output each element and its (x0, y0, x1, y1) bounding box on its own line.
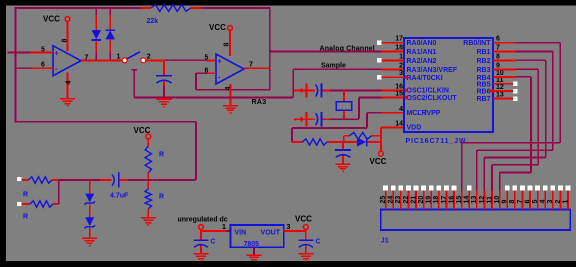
svg-text:R: R (23, 192, 28, 199)
wire: OSC2 net to PIC pin15 (329, 98, 404, 120)
wire: RB4 to J1 pin10 (493, 77, 531, 191)
wire: Analog Channel net (270, 45, 404, 52)
svg-text:RB0/INT: RB0/INT (463, 40, 491, 47)
svg-text:15: 15 (456, 196, 463, 204)
pin 19 stub J1 (426, 186, 434, 210)
svg-text:VCC: VCC (295, 214, 312, 223)
svg-text:17: 17 (441, 196, 448, 204)
svg-text:R: R (159, 194, 164, 201)
svg-text:14: 14 (395, 120, 403, 127)
svg-text:19: 19 (426, 196, 433, 204)
resistor R (MCLR pull-up) (292, 139, 357, 145)
capacitor C (input filter) (194, 231, 216, 253)
wire: top border horizontal to 22k (15, 7, 141, 9)
svg-text:23: 23 (395, 196, 402, 204)
svg-text:OSC2/CLKOUT: OSC2/CLKOUT (407, 95, 458, 102)
pin 12 stub J1 (479, 191, 486, 210)
pin 14 stub J1 (464, 186, 472, 210)
svg-text:24: 24 (388, 196, 395, 204)
zener diode Z2 (84, 205, 95, 239)
IC U3 PIC16C711 body (404, 38, 493, 132)
svg-text:VIN: VIN (235, 230, 247, 237)
op-amp U1 (53, 46, 81, 76)
wire: RB2 to J1 pin12 (484, 60, 545, 191)
wire: VDD pin14 to VCC (381, 127, 404, 151)
svg-text:3: 3 (547, 200, 554, 204)
power VCC symbol op-amp U2 (209, 23, 232, 56)
pin 3 stub RA4 (n.c.) (377, 70, 404, 79)
pin 2 label RA3 (399, 62, 403, 69)
wire: switch to hold cap junction (146, 59, 216, 61)
svg-text:VCC: VCC (43, 15, 60, 24)
pin 4 stub J1 (540, 186, 548, 210)
wire: 7805 ground stub (253, 247, 255, 254)
wire: unregulated dc to VIN (201, 229, 231, 231)
wire: U1 pin6 input (15, 67, 53, 69)
svg-text:+: + (218, 59, 222, 66)
svg-text:5: 5 (532, 200, 539, 204)
svg-text:16: 16 (448, 196, 455, 204)
capacitor C3 (OSC1) (294, 84, 329, 98)
pin 8 stub J1 (509, 186, 517, 210)
resistor R (lower divider) (145, 189, 164, 218)
pin 6 label U2 (205, 68, 209, 75)
svg-text:20: 20 (418, 196, 425, 204)
svg-text:6: 6 (496, 36, 500, 43)
svg-text:unregulated dc: unregulated dc (178, 216, 228, 223)
svg-text:13: 13 (496, 92, 504, 99)
svg-text:RB3: RB3 (476, 67, 490, 74)
ground below zeners (82, 238, 97, 247)
svg-text:4: 4 (540, 200, 547, 204)
svg-text:OSC1/CLKIN: OSC1/CLKIN (407, 88, 449, 95)
pin 4 lead U1 + ground (66, 73, 73, 99)
diode D1 (anti-parallel pair, left) (92, 8, 101, 60)
svg-text:12: 12 (496, 84, 504, 91)
wire: RB1 to J1 pin13 (477, 52, 553, 192)
svg-text:VCC: VCC (209, 23, 226, 32)
svg-text:9: 9 (496, 62, 500, 69)
wire: lower-left loop box top (15, 122, 196, 180)
svg-text:RB6: RB6 (476, 88, 490, 95)
label PIC16C711_JW (406, 138, 467, 145)
wire: MCLR net from PIC pin4 (292, 113, 404, 142)
pin 5 label U2 (205, 55, 209, 62)
svg-text:8: 8 (496, 53, 500, 60)
svg-text:25: 25 (380, 196, 387, 204)
svg-text:VDD: VDD (407, 125, 422, 132)
pin 24 stub J1 (388, 186, 396, 210)
ground below input cap (194, 253, 209, 261)
pin 8 label RB2 (496, 53, 500, 60)
svg-text:2: 2 (399, 62, 403, 69)
resistor R (parallel with D3) (344, 132, 381, 142)
svg-text:RB5: RB5 (476, 81, 490, 88)
pin 22 stub J1 (403, 186, 411, 210)
wire: joining the two input resistors (58, 180, 60, 204)
pin 25 stub J1 (380, 186, 388, 210)
wire: RB3 to J1 pin11 (492, 69, 538, 191)
switch S1 terminal 1 (117, 54, 128, 63)
crystal Y1 (336, 91, 352, 120)
ground below output cap (298, 253, 313, 261)
zener diode Z1 (84, 180, 95, 205)
pin 3 stub J1 (547, 186, 555, 210)
wire: left border vertical net (14, 8, 16, 122)
svg-text:2: 2 (147, 54, 151, 61)
pin 16 label OSC1 (395, 84, 403, 91)
svg-text:3: 3 (287, 224, 291, 231)
pin 6 label U1 (41, 62, 45, 69)
wire: RA3 net (132, 70, 294, 106)
pin 18 stub J1 (433, 186, 441, 210)
pin 6 stub J1 (524, 186, 532, 210)
svg-text:RA3: RA3 (252, 99, 267, 106)
capacitor C4 (OSC2) (294, 112, 329, 126)
svg-text:VOUT: VOUT (261, 230, 281, 237)
ground below divider (141, 217, 156, 226)
svg-text:2: 2 (555, 200, 562, 204)
svg-text:18: 18 (395, 45, 403, 52)
svg-text:10: 10 (494, 196, 501, 204)
node: input resistor R (upper) (17, 177, 59, 199)
wire: main lower-left horizontal (59, 179, 196, 181)
resistor R (upper divider) (145, 146, 164, 189)
power VCC symbol op-amp U1 (43, 15, 70, 52)
svg-text:VCC: VCC (370, 157, 387, 166)
resistor 22k (141, 5, 201, 25)
clock input markers on U3 (405, 75, 409, 100)
capacitor C hold (at switch) (156, 60, 172, 99)
pin 17 stub J1 (441, 186, 449, 210)
svg-text:16: 16 (395, 84, 403, 91)
svg-text:11: 11 (486, 196, 493, 204)
svg-text:RB1: RB1 (476, 49, 490, 56)
regulator U4 7805 (231, 225, 284, 248)
svg-text:22: 22 (403, 196, 410, 204)
pin 4 lead U2 + label (225, 84, 232, 105)
pin 10 label RB4 (496, 70, 504, 77)
wire: OSC1 net to PIC pin16 (329, 90, 404, 92)
svg-text:1: 1 (222, 224, 226, 231)
pin 12 stub RB6 (n.c.) (488, 84, 517, 93)
svg-text:RB7: RB7 (476, 96, 490, 103)
switch S1 terminal 2 (141, 54, 151, 63)
svg-text:J1: J1 (381, 238, 389, 245)
svg-text:13: 13 (471, 196, 478, 204)
svg-text:8: 8 (509, 200, 516, 204)
svg-text:C: C (316, 239, 321, 246)
svg-text:7: 7 (496, 45, 500, 52)
connector J1 body (381, 210, 571, 245)
pin 23 stub J1 (395, 186, 403, 210)
svg-text:R: R (23, 214, 28, 221)
svg-text:RA0/AN0: RA0/AN0 (407, 40, 437, 47)
pin 13 stub J1 (471, 191, 478, 210)
label: unregulated dc input (178, 216, 228, 231)
svg-text:RA3/AN3/VREF: RA3/AN3/VREF (407, 67, 458, 74)
wire: Sample net (293, 62, 404, 97)
diode D2 (anti-parallel pair, right) (106, 8, 115, 60)
svg-text:/VPP: /VPP (425, 110, 441, 117)
switch S1 lever (127, 52, 140, 59)
svg-text:C: C (211, 239, 216, 246)
pin 10 stub J1 (494, 191, 501, 210)
pin 11 stub RB5 (n.c.) (493, 77, 518, 86)
svg-text:4.7uF: 4.7uF (110, 192, 129, 199)
wire: U1 pin5 input (8, 52, 53, 54)
capacitor C5 (MCLR) (335, 142, 351, 164)
svg-text:8: 8 (224, 43, 231, 47)
svg-text:4: 4 (225, 87, 232, 91)
pin 2 stub J1 (555, 186, 563, 210)
pin 8 label U2 (rotated) (224, 43, 231, 47)
svg-text:5: 5 (205, 55, 209, 62)
pin 20 stub J1 (418, 186, 426, 210)
svg-text:14: 14 (464, 196, 471, 204)
ground below C5 (336, 163, 351, 172)
wire: VOUT to VCC (284, 224, 306, 231)
svg-text:1: 1 (117, 54, 121, 61)
ground below hold cap (157, 99, 172, 108)
svg-text:17: 17 (395, 36, 403, 43)
pin 13 stub RB7 (n.c.) (493, 92, 518, 101)
svg-text:7805: 7805 (244, 241, 260, 248)
power VCC divider symbol (134, 126, 151, 146)
pin 17 stub RA0 (n.c.) (377, 36, 404, 45)
power VCC symbol (MCLR/VDD) (370, 151, 387, 166)
pin 9 stub J1 (502, 186, 510, 210)
svg-text:4: 4 (399, 106, 403, 113)
pin 15 label OSC2 (395, 91, 403, 98)
svg-text:8: 8 (62, 39, 69, 43)
pin 11 stub J1 (486, 191, 493, 210)
svg-text:Analog Channel: Analog Channel (320, 45, 375, 52)
pin 1 stub J1 (562, 186, 570, 210)
power VCC symbol (7805 output) (295, 214, 312, 229)
svg-text:1: 1 (562, 200, 569, 204)
svg-text:18: 18 (433, 196, 440, 204)
pin 7 label U1 (85, 55, 89, 62)
pin 18 label RA1 (395, 45, 403, 52)
svg-text:9: 9 (502, 200, 509, 204)
pin 14 label VDD (395, 120, 403, 127)
diode D3 (MCLR) (357, 137, 381, 146)
node: input resistor R (lower) (17, 201, 59, 221)
op-amp U2 (216, 54, 244, 84)
pin 4 label MCLR (399, 106, 403, 113)
svg-text:RA2/AN2: RA2/AN2 (407, 58, 437, 65)
ground U1 (60, 98, 75, 107)
pin 9 label RB3 (496, 62, 500, 69)
wire: U2 pin6 feedback (196, 73, 270, 90)
pin 5 stub J1 (532, 186, 540, 210)
pin 8 label op-amp U1 (rotated) (62, 39, 69, 43)
wire: RB0 to J1 pin15 (462, 43, 561, 191)
svg-text:RA1/AN1: RA1/AN1 (407, 49, 437, 56)
pin 7 stub J1 (517, 186, 525, 210)
pin 1 stub RA2 (n.c.) (377, 53, 404, 62)
svg-text:Sample: Sample (321, 62, 346, 69)
capacitor C (output filter) (298, 231, 320, 253)
pin 7 label U2 (249, 62, 253, 69)
wire: U2 output (244, 67, 270, 69)
wire: feedback vertical (22k net to output) (269, 8, 271, 90)
capacitor 4.7uF (110, 172, 129, 199)
ground below 7805 (247, 254, 262, 260)
svg-text:1: 1 (399, 53, 403, 60)
svg-text:22k: 22k (147, 18, 159, 25)
wire: U1 output to switch (81, 59, 122, 61)
svg-text:+: + (55, 51, 59, 58)
svg-text:6: 6 (524, 200, 531, 204)
svg-text:R: R (159, 152, 164, 159)
svg-text:PIC16C711_JW: PIC16C711_JW (406, 138, 467, 145)
pin 6 label RB0 (496, 36, 500, 43)
svg-text:RB2: RB2 (476, 58, 490, 65)
pin 21 stub J1 (410, 186, 418, 210)
svg-text:15: 15 (395, 91, 403, 98)
svg-text:4: 4 (66, 81, 73, 85)
wire: top horizontal after 22k to feedback vertical (201, 7, 270, 9)
pin 7 label RB1 (496, 45, 500, 52)
svg-text:12: 12 (479, 196, 486, 204)
pin 16 stub J1 (448, 186, 456, 210)
pin 15 stub J1 (456, 191, 463, 210)
ground U2 (223, 105, 238, 114)
svg-text:21: 21 (410, 196, 417, 204)
svg-text:11: 11 (496, 77, 504, 84)
svg-text:3: 3 (399, 70, 403, 77)
pin 5 label U1 (41, 47, 45, 54)
svg-text:7: 7 (517, 200, 524, 204)
svg-text:RA4/T0CKI: RA4/T0CKI (407, 75, 443, 82)
